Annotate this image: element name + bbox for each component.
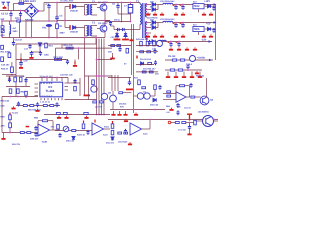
resistor R19 bbox=[66, 47, 69, 49]
resistor R100 bbox=[82, 124, 85, 129]
diode D24 bbox=[208, 5, 211, 8]
capacitor C62 bbox=[58, 133, 61, 138]
opamp IC2B signs bbox=[39, 127, 41, 136]
svg-text:NTC: NTC bbox=[15, 17, 20, 20]
svg-text:250V: 250V bbox=[13, 30, 19, 33]
wire IC2C out bbox=[142, 128, 151, 130]
wire IC1 right pin 2 bbox=[65, 89, 69, 91]
wire aux step bbox=[61, 44, 63, 48]
wire C17 over bbox=[62, 58, 68, 60]
svg-text:IC4: IC4 bbox=[193, 23, 197, 26]
wire T2 pri top bbox=[85, 4, 87, 6]
junction p4 bbox=[84, 37, 86, 39]
wire sup stub 0 bbox=[167, 72, 169, 75]
junction block bbox=[130, 21, 132, 23]
transformer T3 secondary bbox=[91, 26, 92, 36]
ground -12 a bbox=[185, 47, 189, 50]
wire C12 stub bbox=[13, 38, 15, 41]
wire D1 in bbox=[65, 6, 69, 8]
wire aux vert bbox=[78, 48, 80, 59]
diode D41 bbox=[111, 137, 114, 140]
wire fb col2 bbox=[79, 78, 81, 96]
wire Y2 bottom bbox=[20, 17, 22, 21]
resistor R75 bbox=[154, 85, 157, 90]
resistor R102 bbox=[111, 130, 114, 134]
capacitor C46 bbox=[158, 85, 161, 90]
resistor R44 bbox=[146, 41, 149, 45]
resistor R97 bbox=[84, 112, 88, 114]
transistor Q1 internals bbox=[102, 5, 105, 10]
resistor R10 bbox=[45, 43, 48, 48]
ground sup 1 bbox=[174, 75, 178, 78]
wire caps row bbox=[114, 29, 128, 31]
capacitor C9 bbox=[109, 21, 112, 26]
output +12V arrow bbox=[214, 3, 217, 6]
wire IC1 bottom pin 4 bbox=[54, 98, 56, 100]
wire T2 sec bot bbox=[92, 14, 97, 16]
pot RV1 bbox=[63, 126, 69, 132]
wire IC1 right pin 1 bbox=[65, 86, 69, 88]
svg-text:1 16 15 14: 1 16 15 14 bbox=[40, 101, 51, 104]
op-amp IC2A bbox=[92, 123, 104, 135]
wire sup in2 bbox=[163, 99, 176, 101]
capacitor C14b bbox=[39, 51, 42, 56]
ground below bbox=[11, 106, 15, 109]
resistor R80 bbox=[167, 91, 171, 93]
wire R73 to bus bbox=[123, 92, 132, 94]
wire C8 top bbox=[117, 3, 119, 4]
svg-text:1 2 3 4 5 6 7: 1 2 3 4 5 6 7 bbox=[40, 95, 54, 98]
wire C21 up bbox=[182, 5, 184, 7]
capacitor C44 bbox=[36, 102, 39, 107]
wire aux rail bbox=[56, 47, 113, 49]
wire C23 up bbox=[182, 23, 184, 25]
wire loop right bbox=[95, 38, 97, 45]
svg-text:+5VSB: +5VSB bbox=[197, 57, 205, 60]
resistor R104 bbox=[124, 132, 128, 134]
wire fb2 bbox=[68, 82, 80, 84]
svg-text:200V: 200V bbox=[60, 32, 66, 35]
wire fb out bbox=[185, 85, 190, 87]
svg-text:C5: C5 bbox=[60, 15, 64, 18]
wire ps-on drop bbox=[189, 123, 191, 127]
capacitor C24 bbox=[212, 6, 215, 11]
junction aux rail a bbox=[78, 47, 80, 49]
resistor R82 feedback bbox=[179, 85, 184, 87]
wire bridge top feed bbox=[31, 3, 33, 4]
ground bm low bbox=[128, 142, 132, 145]
transistor Q8 bbox=[200, 96, 209, 105]
ground bl bbox=[1, 137, 5, 140]
wire ps-on mid bbox=[186, 122, 193, 124]
capacitor C26 bbox=[169, 42, 172, 47]
wire T1 pri return bbox=[139, 24, 141, 29]
resistor R47 bbox=[147, 51, 151, 53]
pot RV1 arrow bbox=[64, 127, 68, 131]
capacitor C23 plus bbox=[180, 22, 182, 25]
wire bc mid rail bbox=[55, 130, 92, 132]
wire bl col bbox=[9, 120, 11, 122]
junction p3 bbox=[56, 37, 58, 39]
wire T1 tap3 bbox=[147, 13, 151, 15]
wire Q9 base bbox=[197, 120, 203, 122]
ground sb2 bbox=[195, 71, 199, 74]
ground sb1 bbox=[29, 56, 33, 59]
transistor Q8 internals bbox=[203, 97, 207, 104]
svg-text:TH1: TH1 bbox=[42, 27, 47, 30]
wire IC2B fb up bbox=[37, 121, 39, 127]
svg-text:C20 2200u/16V: C20 2200u/16V bbox=[160, 0, 175, 3]
diode D1 drive bbox=[73, 5, 76, 9]
wire C45 up bbox=[129, 78, 131, 83]
wire below rail bbox=[16, 105, 60, 107]
transistor Q2 internals bbox=[102, 26, 105, 31]
wire C4 top bbox=[9, 21, 11, 25]
resistor R40 bbox=[111, 45, 115, 47]
op-amp IC2C bbox=[130, 123, 142, 135]
wire IC1 top pin 4 bbox=[61, 78, 63, 82]
wire D9 top bbox=[125, 32, 127, 34]
ground C44 bbox=[35, 109, 39, 112]
resistor R98 bbox=[57, 124, 60, 129]
wire prot r2 bbox=[136, 51, 158, 53]
wire amp out bbox=[186, 96, 190, 98]
ground bm 2 bbox=[123, 113, 127, 116]
junction T1 tap1 bbox=[146, 4, 148, 6]
capacitor C16 bbox=[19, 61, 23, 66]
svg-text:Q3: Q3 bbox=[108, 92, 112, 95]
wire left rail bbox=[6, 75, 24, 77]
junction sb bbox=[187, 69, 189, 71]
wire IC1 bottom pin 0 bbox=[40, 98, 42, 100]
capacitor C12 bbox=[12, 41, 15, 46]
diode D22 rectifier bbox=[152, 21, 155, 25]
capacitor C45b bbox=[55, 102, 58, 107]
junction ps-on bbox=[189, 122, 191, 124]
wire prot stub bbox=[112, 53, 114, 58]
wire R1 down bbox=[56, 29, 58, 38]
wire gnd drop bl bbox=[3, 133, 5, 137]
resistor R74 bbox=[142, 87, 146, 89]
wire C1 drop bbox=[48, 9, 50, 21]
resistor R69 bbox=[93, 101, 97, 103]
inductor L2 filter bbox=[10, 25, 11, 35]
wire L1 out bbox=[173, 4, 216, 6]
diode D25 bbox=[208, 27, 211, 30]
wire down bus 3 bbox=[103, 39, 105, 115]
regulator IC3 7812 bbox=[193, 4, 204, 9]
junction bus b bbox=[20, 20, 22, 22]
wire D7 drop bbox=[39, 46, 41, 52]
svg-text:C15 10n: C15 10n bbox=[1, 64, 10, 67]
wire 5vsb rail bbox=[165, 59, 213, 61]
wire C22 up bbox=[175, 23, 177, 25]
junction C23 bbox=[182, 22, 184, 24]
diode D8 bbox=[115, 34, 118, 37]
capacitor C11 bbox=[121, 28, 125, 31]
wire C7 bot bbox=[130, 13, 132, 14]
resistor R49 bbox=[142, 71, 146, 73]
svg-text:D30: D30 bbox=[108, 51, 113, 54]
ground bm extra bbox=[134, 113, 138, 116]
capacitor C17 bbox=[66, 59, 69, 64]
wire bridge out up bbox=[43, 3, 45, 12]
wire rect join1 bbox=[156, 4, 164, 6]
capacitor C10 bbox=[116, 28, 120, 31]
junction C27 bbox=[178, 41, 180, 43]
resistor R11 bbox=[1, 45, 4, 49]
svg-text:B1 600V: B1 600V bbox=[26, 0, 36, 3]
zener top red bbox=[9, 113, 11, 115]
wire IC2B fb out bbox=[48, 120, 53, 122]
wire IC1 top pin 0 bbox=[41, 78, 43, 82]
wire IC2B out bbox=[50, 129, 61, 131]
resistor R70 bbox=[99, 101, 103, 103]
svg-text:C28 d: C28 d bbox=[186, 63, 193, 66]
wire L input bbox=[7, 6, 9, 11]
resistor R1 bleed bbox=[56, 24, 59, 29]
wire D8 gnd bbox=[116, 37, 118, 39]
ground row2 5 bbox=[202, 34, 206, 37]
wire prot bus bbox=[131, 24, 133, 75]
ground R92 red bbox=[26, 126, 30, 128]
resistor R60 bbox=[14, 77, 17, 82]
wire IC1 bottom pin 5 bbox=[58, 98, 60, 100]
wire mr vert 0 bbox=[111, 75, 113, 91]
svg-text:B+: B+ bbox=[124, 63, 127, 66]
wire -12 rail bbox=[147, 41, 212, 43]
svg-text:C65 R105: C65 R105 bbox=[118, 141, 128, 144]
wire mid link rail bbox=[85, 75, 113, 77]
svg-text:-12V: -12V bbox=[201, 39, 207, 42]
svg-text:Q9 2N3904: Q9 2N3904 bbox=[198, 111, 209, 114]
resistor R62 bbox=[9, 89, 12, 93]
red cap ps-on bbox=[189, 115, 191, 121]
wire sb loop left bbox=[15, 44, 17, 97]
resistor R61 bbox=[19, 77, 22, 82]
transformer T3 core bbox=[89, 25, 90, 36]
ground prot4 bbox=[129, 38, 133, 41]
wire bc top rail bbox=[44, 114, 110, 116]
junction mr2 bbox=[154, 109, 156, 111]
transistor Q1 bbox=[100, 4, 107, 11]
svg-text:IC2A: IC2A bbox=[103, 134, 108, 137]
transformer T2 primary bbox=[87, 5, 88, 15]
capacitor C1 plus plate bbox=[69, 4, 71, 9]
thermistor NTC1 bbox=[17, 20, 21, 22]
red cap ps-on bar bbox=[187, 114, 192, 115]
capacitor C20 bbox=[174, 5, 177, 10]
wire bus to Q4 bbox=[134, 95, 138, 97]
svg-text:22K: 22K bbox=[155, 73, 159, 76]
wire Q2 emitter bbox=[104, 31, 106, 37]
transistor Q3 bbox=[110, 95, 117, 102]
wire IC1 bottom pin 6 bbox=[61, 98, 63, 100]
diode D40 bbox=[72, 137, 75, 140]
svg-text:R43 R44 680: R43 R44 680 bbox=[136, 38, 149, 41]
resistor R103 bbox=[118, 132, 122, 134]
svg-text:100n: 100n bbox=[44, 54, 50, 57]
diode D2 drive bbox=[73, 26, 76, 30]
svg-text:Q6 R70: Q6 R70 bbox=[95, 106, 103, 109]
wire Q1 base bbox=[97, 7, 100, 9]
svg-text:R94: R94 bbox=[34, 117, 39, 120]
capacitor C35 bbox=[148, 40, 151, 45]
wire IC2A out bbox=[104, 128, 111, 130]
resistor R66 bbox=[43, 105, 47, 107]
junction sb col bbox=[11, 74, 13, 76]
svg-text:C51 10: C51 10 bbox=[184, 107, 192, 110]
wire sup stub 3 bbox=[191, 72, 193, 75]
svg-text:TL431: TL431 bbox=[12, 112, 19, 115]
wire Q4b to R75 bbox=[150, 95, 155, 97]
svg-text:R100 1K: R100 1K bbox=[77, 134, 86, 137]
junction bus rail 1 bbox=[98, 114, 100, 116]
capacitor C28 bbox=[186, 64, 189, 69]
wire C8 bot bbox=[117, 9, 119, 14]
capacitor C21 plus bbox=[180, 4, 182, 7]
wire vcc drop bbox=[25, 78, 27, 87]
svg-text:C5 220u 200V: C5 220u 200V bbox=[60, 0, 74, 3]
wire aux corner bbox=[55, 48, 57, 59]
wire sec tap rail bbox=[97, 59, 113, 61]
resistor R63b bbox=[25, 91, 28, 95]
wire mid verticals b bbox=[88, 76, 90, 100]
wire D1 out bbox=[76, 6, 85, 8]
wire fb over bbox=[176, 85, 179, 87]
junction bl bbox=[9, 132, 11, 134]
svg-text:C2 C3: C2 C3 bbox=[1, 13, 9, 16]
wire D2 out bbox=[76, 27, 85, 29]
capacitor CY1 bbox=[9, 12, 12, 17]
junction T1 tap4 bbox=[146, 22, 148, 24]
diode D31 bbox=[141, 62, 144, 65]
wire D7 over bbox=[32, 51, 41, 53]
wire col 26 bbox=[25, 21, 27, 38]
svg-text:IC2B: IC2B bbox=[42, 141, 47, 144]
svg-text:KBU608: KBU608 bbox=[25, 18, 34, 21]
junction IC2C bbox=[149, 119, 151, 121]
junction l1 bbox=[10, 96, 12, 98]
wire IC2B fb down bbox=[52, 121, 54, 130]
transformer T1 core bbox=[143, 3, 144, 38]
ground row1 6 bbox=[209, 12, 213, 15]
svg-text:IC2C: IC2C bbox=[143, 133, 148, 136]
wire left col bbox=[1, 97, 3, 133]
wire Y2 stub bbox=[20, 11, 22, 12]
wire bl col2 bbox=[9, 128, 11, 132]
svg-text:C15: C15 bbox=[1, 105, 6, 108]
capacitor C14 bbox=[30, 51, 34, 56]
wire TH1 down bbox=[48, 27, 50, 38]
wire fuse left bbox=[14, 2, 19, 4]
output +5V arrow bbox=[214, 21, 217, 24]
junction down bus 0 bbox=[96, 75, 98, 77]
wire primary bus low bbox=[2, 37, 105, 39]
transistor Q10 bbox=[157, 41, 163, 47]
resistor R101 bbox=[111, 124, 114, 128]
wire IC1 left pin 0 bbox=[35, 83, 39, 85]
junction C21 bbox=[182, 4, 184, 6]
ground bc2 bbox=[64, 116, 68, 119]
junction loop-bus bbox=[95, 37, 97, 39]
ground ps-on bbox=[187, 132, 191, 135]
ground row1 3 bbox=[174, 12, 178, 15]
ground C45 bar bbox=[126, 89, 133, 91]
wire q5 c bbox=[93, 84, 95, 87]
cap red bc bbox=[83, 121, 85, 124]
svg-text:7812: 7812 bbox=[194, 5, 200, 8]
wire down bus 0 bbox=[96, 39, 98, 115]
resistor R30 bbox=[172, 59, 176, 61]
wire T1 top feed bbox=[139, 3, 141, 5]
svg-text:+12V: +12V bbox=[204, 0, 210, 3]
wire C16 up bbox=[20, 53, 22, 58]
IC2A vcc red bbox=[94, 120, 96, 123]
wire T2 sec top bbox=[92, 4, 97, 6]
ground row2 0 bbox=[146, 34, 150, 37]
capacitor C26 plus bbox=[168, 41, 170, 44]
ground bc3 bbox=[84, 116, 88, 119]
wire C4 bottom bbox=[9, 33, 11, 38]
wire ps-on in bbox=[171, 122, 175, 124]
capacitor C71 bbox=[188, 125, 191, 130]
wire sup stub 4 bbox=[199, 72, 201, 75]
svg-text:R19 47K: R19 47K bbox=[64, 44, 73, 47]
wire sb col bbox=[11, 62, 13, 67]
capacitor C34 bbox=[154, 60, 157, 65]
wire bm stub 1 bbox=[119, 111, 121, 113]
wire rect v2 bbox=[157, 23, 159, 28]
svg-text:R64 C43: R64 C43 bbox=[1, 100, 10, 103]
capacitor C1 input bbox=[47, 4, 50, 9]
wire to q8 bbox=[195, 96, 200, 98]
wire prot r bbox=[136, 45, 159, 47]
resistor R22 bbox=[58, 58, 61, 60]
ground -12 b bbox=[193, 47, 197, 50]
svg-text:PS-ON: PS-ON bbox=[168, 55, 176, 58]
wire IC1 left pin 3 bbox=[35, 95, 39, 97]
wire IC2C up bbox=[149, 120, 151, 130]
resistor R92 bbox=[20, 132, 24, 134]
resistor R15 bbox=[10, 67, 13, 73]
bm red a bbox=[112, 121, 114, 124]
svg-text:+5V: +5V bbox=[206, 23, 211, 26]
wire down bus 2 bbox=[101, 39, 103, 115]
diode D20 rectifier bbox=[152, 3, 155, 7]
ground C18 bbox=[73, 64, 77, 67]
wire mr vert 1 bbox=[114, 75, 116, 91]
resistor R72 bbox=[138, 80, 141, 85]
transistor Q2 bbox=[100, 25, 107, 32]
wire IC1 bottom pin 1 bbox=[44, 98, 46, 100]
svg-text:D31 R48 4K7: D31 R48 4K7 bbox=[143, 68, 156, 71]
wire R10 up bbox=[45, 43, 47, 44]
svg-text:C12 1n: C12 1n bbox=[15, 39, 23, 42]
svg-text:7805: 7805 bbox=[194, 28, 200, 31]
resistor R64 bbox=[23, 105, 27, 107]
junction C22 bbox=[175, 22, 177, 24]
resistor R41 bbox=[117, 45, 121, 47]
inductor L1 bbox=[163, 3, 173, 4]
ground C16 bbox=[19, 66, 23, 69]
capacitor C61 bbox=[34, 132, 37, 137]
junction C20 bbox=[175, 4, 177, 6]
wire IC1 left pin 2 bbox=[35, 91, 39, 93]
svg-text:C42 R67 C46: C42 R67 C46 bbox=[60, 74, 73, 77]
wire T2 pri drop bbox=[84, 5, 86, 16]
wire mr vert 2 bbox=[117, 75, 119, 91]
